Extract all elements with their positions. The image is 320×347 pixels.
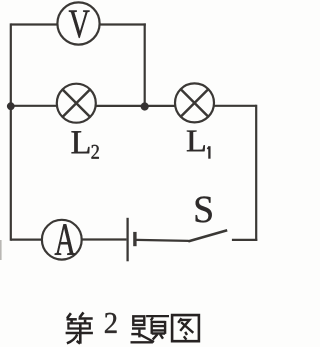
node junction left <box>7 102 15 110</box>
wire middle row right <box>214 105 256 107</box>
caption char DI (first) <box>66 312 93 343</box>
ammeter U-A circle <box>42 220 82 260</box>
label L1 subscript stroke <box>207 146 209 159</box>
wire right-top vertical drop <box>144 23 146 106</box>
wire left vertical branch <box>10 23 12 240</box>
wire bottom left <box>11 239 42 241</box>
wire middle row left <box>11 105 57 107</box>
label L1 letter L <box>187 131 205 152</box>
wire ammeter to battery <box>82 238 127 240</box>
lamp L1 circle <box>175 83 214 122</box>
caption char TI (third) <box>131 316 170 342</box>
wire voltmeter to right vertical <box>100 23 146 25</box>
ammeter letter A <box>55 224 76 255</box>
lamp L1 cross <box>181 89 208 116</box>
label S (switch) <box>196 197 212 223</box>
label L2 subscript 2 <box>92 145 99 159</box>
lamp L2 circle <box>57 84 96 123</box>
wire battery to switch pivot <box>137 240 189 241</box>
node junction right <box>141 102 149 110</box>
wire bottom right contact <box>232 239 257 241</box>
voltmeter letter V <box>69 11 90 38</box>
lamp L2 cross <box>63 90 90 117</box>
label L2 letter L <box>72 131 90 153</box>
battery short plate (negative) <box>133 232 136 246</box>
battery long plate (positive) <box>126 218 128 261</box>
voltmeter U-V circle <box>57 2 99 44</box>
scan artifact left edge <box>0 240 2 260</box>
wire right vertical <box>255 105 257 241</box>
switch S arm (open blade) <box>188 230 227 241</box>
wire top-left horizontal <box>11 23 58 25</box>
caption char TU (fourth) <box>172 315 199 341</box>
caption digit 2 <box>105 313 117 333</box>
wire middle row center <box>96 105 175 107</box>
